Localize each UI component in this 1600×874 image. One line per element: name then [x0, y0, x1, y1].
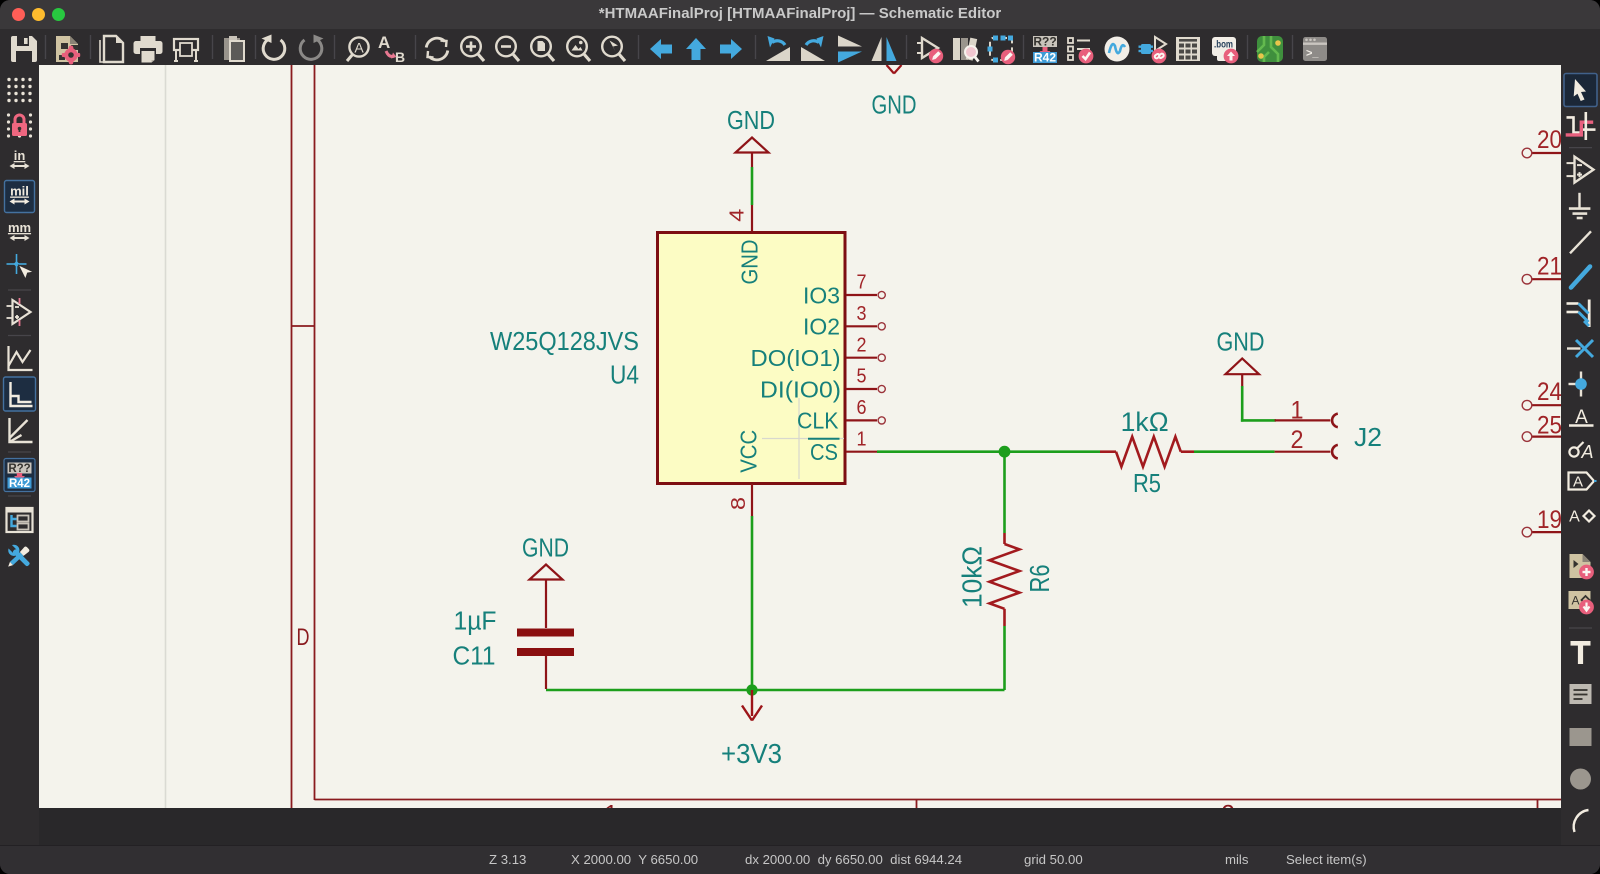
svg-text:CLK: CLK [797, 408, 839, 434]
wire GND to J2 pin 1 [1242, 387, 1274, 420]
wire junction to R5 [1005, 450, 1101, 453]
sheet frame row tick [292, 325, 315, 327]
icon hierarchical sheet [1570, 554, 1594, 579]
icon HV lines (selected) [4, 377, 36, 411]
svg-text:24: 24 [1537, 378, 1561, 406]
svg-text:GND: GND [872, 92, 917, 120]
off-screen symbol pin 20 [1522, 126, 1562, 158]
wire pin8 to +3V3 junction [751, 516, 754, 690]
icon mirror horizontal [872, 37, 897, 61]
svg-text:2: 2 [1221, 801, 1234, 809]
svg-text:CS: CS [810, 439, 838, 465]
svg-text:1: 1 [857, 428, 867, 450]
icon assign footprints [1139, 37, 1167, 63]
icon schematic setup [56, 36, 80, 65]
icon nav up [686, 38, 706, 60]
icon no connect [1567, 340, 1593, 357]
icon full cursor [7, 254, 34, 279]
svg-text:A: A [1573, 474, 1583, 491]
svg-text:GND: GND [737, 240, 763, 285]
icon add junction [1569, 372, 1587, 397]
icon rotate cw [801, 36, 825, 61]
icon rectangle [1570, 728, 1592, 746]
icon zoom to objects [567, 37, 590, 61]
off-screen symbol pin 21 [1522, 253, 1562, 284]
separator [8, 289, 31, 291]
icon zoom to fit [531, 37, 554, 61]
icon text [1571, 641, 1591, 664]
power symbol GND above C11 [530, 565, 563, 580]
wire junction down to R6 [1003, 452, 1006, 533]
svg-text:A: A [1571, 594, 1579, 608]
svg-text:GND: GND [522, 535, 569, 563]
svg-text:IO3: IO3 [803, 282, 840, 308]
icon text box [1570, 684, 1592, 704]
icon global label [1569, 473, 1597, 491]
power symbol +3V3 [742, 690, 762, 721]
icon save [11, 36, 37, 62]
svg-text:3: 3 [857, 303, 867, 325]
pin 7 IO3 [803, 272, 885, 309]
svg-text:A: A [1580, 442, 1593, 462]
separator [8, 495, 31, 497]
svg-text:C11: C11 [453, 643, 496, 671]
svg-text:R42: R42 [9, 478, 30, 490]
icon highlight net [1566, 112, 1596, 140]
icon footprint editor [988, 36, 1016, 65]
svg-text:8: 8 [728, 497, 750, 510]
icon units mils (selected) [5, 181, 35, 213]
svg-text:mm: mm [8, 220, 31, 235]
node junction +3V3 [746, 684, 757, 695]
icon annotate [1033, 35, 1057, 65]
connector J2 pin 1 [1275, 396, 1338, 427]
icon redo (disabled) [300, 35, 323, 60]
wire +3V3 rail horizontal [546, 689, 1005, 692]
separator [1569, 627, 1592, 629]
svg-text:A: A [1569, 509, 1580, 526]
separator [8, 335, 31, 337]
toolbar separators [46, 35, 1293, 59]
svg-text:A: A [378, 33, 390, 52]
svg-text:1: 1 [604, 801, 617, 809]
svg-text:IO2: IO2 [803, 314, 840, 340]
icon open PCB editor [1257, 36, 1283, 62]
separator [8, 451, 31, 453]
svg-text:J2: J2 [1354, 424, 1382, 452]
resistor R5 [1100, 437, 1194, 467]
svg-text:4: 4 [727, 209, 749, 222]
svg-text:19: 19 [1537, 506, 1561, 534]
svg-text:5: 5 [857, 366, 867, 388]
sheet paper edge [165, 65, 167, 808]
icon zoom out [496, 37, 519, 61]
sheet frame column tick 2 [1537, 800, 1539, 809]
icon nav right [720, 39, 742, 59]
svg-text:U4: U4 [610, 362, 639, 390]
symbol anchor crosshair [762, 398, 844, 479]
icon 45 deg lines [10, 418, 33, 442]
svg-text:DI(IO0): DI(IO0) [760, 376, 841, 402]
node junction CS/R5/R6 [999, 446, 1011, 458]
icon refresh [426, 38, 448, 60]
icon hierarchical label [1569, 509, 1594, 526]
svg-text:6: 6 [857, 397, 867, 419]
svg-text:VCC: VCC [736, 430, 762, 473]
pin 6 CLK [797, 397, 885, 434]
icon grid override (lock) [7, 113, 32, 137]
icon scripting console [1303, 37, 1327, 61]
icon find [347, 37, 369, 61]
separator [1569, 147, 1592, 149]
power symbol GND above U4 pin 4 [736, 138, 769, 168]
icon rotate ccw [766, 36, 790, 61]
icon import sheet pin [1569, 591, 1594, 614]
sheet frame outer left border [291, 65, 293, 808]
svg-text:R5: R5 [1133, 470, 1161, 498]
svg-text:1µF: 1µF [454, 608, 497, 636]
icon add bus [1567, 300, 1590, 328]
svg-text:>_: >_ [1306, 48, 1319, 60]
icon hidden pins (op-amp) [7, 298, 31, 326]
icon zoom in [461, 37, 484, 61]
icon preferences (tools) [6, 542, 33, 569]
svg-text:R6: R6 [1024, 565, 1055, 593]
pin 5 DI(IO0) [760, 366, 885, 403]
svg-text:W25Q128JVS: W25Q128JVS [490, 328, 639, 356]
svg-text:10kΩ: 10kΩ [957, 546, 988, 608]
IC U4 body [658, 233, 846, 484]
svg-text:2: 2 [857, 334, 867, 356]
icon mirror vertical [838, 36, 862, 63]
svg-text:R42: R42 [1034, 51, 1056, 65]
icon netclass directive [1569, 442, 1593, 462]
icon add line [1570, 231, 1591, 253]
svg-text:D: D [297, 624, 310, 651]
off-screen symbol pin 24 [1522, 378, 1562, 410]
wire R5 to J2 pin 2 [1194, 450, 1275, 453]
svg-text:+3V3: +3V3 [721, 738, 782, 769]
icon hierarchy navigator [7, 508, 33, 532]
svg-text:R??: R?? [1033, 35, 1056, 49]
icon grid dots [7, 78, 31, 102]
icon zoom to selection [602, 37, 625, 61]
icon arc [1574, 810, 1589, 832]
icon units mm [8, 220, 31, 241]
pin 8 of U4 [751, 484, 753, 516]
icon undo [262, 35, 285, 60]
resistor R6 [990, 533, 1020, 626]
svg-text:1kΩ: 1kΩ [1121, 407, 1169, 437]
wire R6 bottom [1003, 626, 1006, 690]
icon units inches [10, 148, 30, 169]
icon add symbol [1567, 157, 1594, 183]
svg-text:20: 20 [1537, 126, 1561, 154]
icon symbol fields table [1176, 37, 1200, 61]
svg-text:DO(IO1): DO(IO1) [751, 345, 841, 371]
svg-text:1: 1 [1291, 396, 1304, 424]
icon ERC [1068, 38, 1093, 63]
off-screen symbol pin 19 [1522, 506, 1562, 537]
svg-text:GND: GND [727, 107, 775, 135]
icon find-replace [378, 33, 405, 65]
icon select tool (active) [1564, 74, 1597, 107]
svg-text:25: 25 [1537, 411, 1561, 439]
svg-text:B: B [395, 49, 405, 65]
icon symbol editor [917, 38, 943, 63]
icon print [134, 36, 163, 63]
icon BOM export [1212, 37, 1238, 63]
sheet frame inner bottom border [315, 799, 1562, 801]
connector J2 pin 2 [1275, 426, 1338, 458]
pin 4 of U4 [751, 205, 753, 232]
wire GND to pin 4 [751, 167, 754, 205]
svg-text:GND: GND [1217, 329, 1265, 357]
pin 1 CS [808, 428, 877, 465]
svg-text:mil: mil [10, 184, 29, 199]
icon add power port [1569, 193, 1591, 218]
sheet frame column tick 1 [916, 800, 918, 809]
icon add wire [1571, 267, 1590, 288]
svg-text:2: 2 [1291, 426, 1304, 454]
icon simulator [1105, 37, 1130, 62]
off-screen symbol pin 25 [1522, 411, 1562, 441]
icon page settings [100, 36, 123, 62]
wire CS to junction [877, 450, 1005, 453]
power symbol GND above J2 [1226, 359, 1260, 388]
icon library browser [953, 38, 979, 62]
icon free angle graphic [9, 346, 33, 370]
svg-text:in: in [14, 148, 26, 163]
icon circle [1570, 769, 1591, 790]
power symbol GND (top, clipped by toolbar) [887, 65, 902, 74]
icon nav left [650, 39, 672, 59]
svg-text:21: 21 [1537, 253, 1561, 281]
icon paste [224, 36, 244, 61]
pin 3 IO2 [803, 303, 885, 340]
icon annotate toggle (selected) [4, 459, 35, 492]
icon net label [1569, 407, 1594, 428]
svg-text:A: A [354, 40, 364, 56]
svg-text:7: 7 [857, 272, 867, 294]
sheet frame inner left border [314, 65, 316, 800]
icon plot [174, 39, 198, 61]
pin 2 DO(IO1) [751, 334, 886, 371]
capacitor C11 [517, 580, 574, 690]
